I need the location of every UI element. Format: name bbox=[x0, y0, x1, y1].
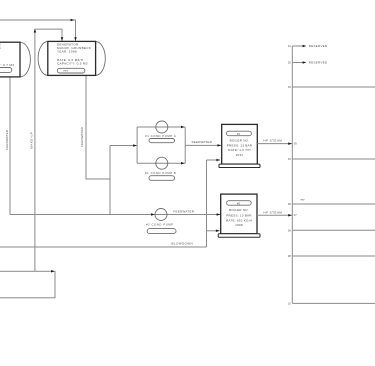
wire make-up riser bbox=[34, 29, 36, 271]
svg-text:PRESS: 13 BAR: PRESS: 13 BAR bbox=[227, 144, 253, 148]
wire blowdown into boiler 2 bbox=[207, 230, 220, 232]
wire condensate tank outlet down bbox=[9, 77, 11, 215]
svg-text:2011: 2011 bbox=[236, 153, 244, 157]
svg-text:PRESS: 13 BAR: PRESS: 13 BAR bbox=[226, 213, 252, 217]
svg-text:RESERVED: RESERVED bbox=[309, 61, 328, 65]
boiler B1 body bbox=[222, 124, 258, 164]
svg-text:YEAR: 1998: YEAR: 1998 bbox=[57, 50, 77, 54]
boiler B2 tag capsule bbox=[227, 201, 252, 206]
svg-text:04: 04 bbox=[288, 157, 291, 161]
svg-text:03: 03 bbox=[288, 85, 291, 89]
svg-text:CAPACITY: 0,7 M3: CAPACITY: 0,7 M3 bbox=[0, 63, 14, 67]
svg-text:07: 07 bbox=[294, 213, 297, 217]
pump group top branch bbox=[137, 126, 185, 128]
svg-text:HP STEAM: HP STEAM bbox=[263, 139, 282, 143]
pump P1A circle bbox=[156, 121, 168, 133]
condensate tank tag capsule bbox=[0, 68, 12, 73]
wire boiler 2 HP steam bbox=[257, 214, 292, 216]
svg-text:10: 10 bbox=[288, 301, 291, 305]
svg-text:06: 06 bbox=[288, 228, 291, 232]
svg-text:FEEDWATER: FEEDWATER bbox=[192, 140, 213, 144]
wire pump group outlet to boiler 1 bbox=[185, 144, 221, 146]
svg-text:08: 08 bbox=[288, 254, 291, 258]
pump group bottom branch bbox=[137, 162, 185, 164]
svg-text:FEEDWATER: FEEDWATER bbox=[80, 126, 84, 147]
svg-text:RESERVED: RESERVED bbox=[309, 44, 328, 48]
wire riser to pump group bbox=[109, 146, 111, 215]
header row 01 (reserved) bbox=[292, 45, 305, 47]
wire condensate-return inlet (top, from off-page left) bbox=[0, 20, 76, 41]
boiler B1 pedestal bbox=[219, 164, 260, 167]
svg-text:#2 COND PUMP: #2 COND PUMP bbox=[146, 222, 174, 226]
svg-text:BOILER NO.: BOILER NO. bbox=[229, 208, 249, 212]
deaerator left arc bbox=[38, 42, 48, 76]
deaerator right arc bbox=[96, 42, 106, 76]
svg-text:BOILER NO.: BOILER NO. bbox=[230, 138, 250, 142]
water treatment box (cut off at left) bbox=[0, 271, 55, 298]
deaerator tag capsule bbox=[57, 68, 85, 73]
svg-text:CAPACITY: 0,5 M3: CAPACITY: 0,5 M3 bbox=[57, 62, 88, 66]
svg-text:???: ??? bbox=[63, 69, 68, 73]
header row 03 bbox=[292, 86, 375, 88]
pump group rails bbox=[137, 127, 185, 163]
pump P1B circle bbox=[156, 157, 168, 169]
svg-text:#2: #2 bbox=[237, 201, 241, 205]
pump P2 circle bbox=[155, 209, 167, 221]
wire feed run to boiler 2 bbox=[10, 214, 220, 216]
svg-text:#1: #1 bbox=[237, 132, 241, 136]
boiler B2 pedestal bbox=[218, 234, 260, 237]
steam header vertical bbox=[291, 46, 293, 303]
wire blowdown into boiler 1 bbox=[207, 159, 221, 161]
svg-text:09: 09 bbox=[294, 142, 297, 146]
header row 05 bbox=[292, 203, 375, 205]
tag capsule pump A bbox=[149, 139, 175, 143]
tag capsule pump B bbox=[149, 176, 175, 181]
tag capsule pump 2 bbox=[147, 229, 176, 234]
boiler B1 tag capsule bbox=[227, 131, 252, 136]
header row 04 bbox=[292, 158, 375, 160]
condensate tank body bbox=[0, 42, 20, 77]
svg-text:01: 01 bbox=[288, 44, 291, 48]
svg-text:1998: 1998 bbox=[235, 223, 243, 227]
svg-text:HP STEAM: HP STEAM bbox=[263, 211, 282, 215]
header row 02 (reserved) bbox=[292, 62, 305, 64]
svg-text:RATE: 1,0 T/H: RATE: 1,0 T/H bbox=[228, 148, 250, 152]
wire boiler 1 HP steam bbox=[257, 143, 292, 145]
wire into pump group inlet bbox=[110, 145, 137, 147]
svg-text:05: 05 bbox=[288, 202, 291, 206]
wire deaerator outlet bbox=[86, 75, 110, 179]
header row 08 bbox=[292, 255, 375, 257]
svg-text:BLOWDOWN: BLOWDOWN bbox=[172, 242, 194, 246]
svg-text:MAKE-UP: MAKE-UP bbox=[30, 132, 34, 149]
svg-text:RATE: 652 KG/H: RATE: 652 KG/H bbox=[226, 218, 252, 222]
svg-text:#1 COND PUMP B: #1 COND PUMP B bbox=[145, 171, 176, 175]
svg-text:FEEDWATER: FEEDWATER bbox=[5, 129, 9, 150]
wire blowdown main run (to off-page left) bbox=[0, 246, 207, 248]
boiler B2 body bbox=[221, 194, 257, 234]
wire make-up top run into deaerator bbox=[35, 29, 62, 41]
header row 10 bbox=[292, 302, 375, 304]
wire blowdown riser bbox=[206, 160, 208, 247]
svg-text:02: 02 bbox=[288, 61, 291, 65]
deaerator body bbox=[48, 41, 96, 75]
condensate tank left arc (cut off) bbox=[20, 42, 30, 77]
header row 06 bbox=[292, 229, 375, 231]
svg-text:#1 COND PUMP A: #1 COND PUMP A bbox=[145, 134, 176, 138]
svg-text:FEEDWATER: FEEDWATER bbox=[173, 210, 194, 214]
svg-text:???: ??? bbox=[300, 199, 305, 202]
